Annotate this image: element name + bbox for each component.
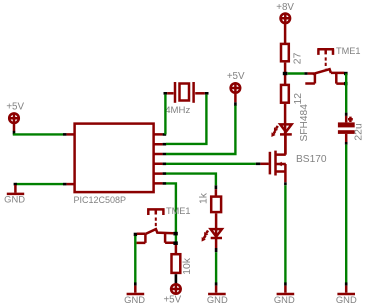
svg-text:+8V: +8V <box>276 2 294 13</box>
svg-text:GND: GND <box>274 294 295 305</box>
svg-text:22u: 22u <box>354 123 365 141</box>
svg-text:TME1: TME1 <box>336 46 361 56</box>
svg-text:BS170: BS170 <box>296 154 327 165</box>
svg-text:+5V: +5V <box>6 102 24 113</box>
svg-text:1k: 1k <box>199 192 210 204</box>
svg-text:SFH484: SFH484 <box>299 104 310 142</box>
svg-text:GND: GND <box>124 294 145 305</box>
svg-text:10k: 10k <box>182 257 193 275</box>
svg-text:12: 12 <box>293 93 304 105</box>
svg-text:GND: GND <box>336 294 357 305</box>
svg-text:4MHz: 4MHz <box>165 105 190 116</box>
svg-text:+5V: +5V <box>227 71 245 82</box>
svg-text:TME1: TME1 <box>166 206 191 216</box>
svg-text:PIC12C508P: PIC12C508P <box>74 195 127 205</box>
svg-text:GND: GND <box>207 294 228 305</box>
svg-text:GND: GND <box>4 194 25 205</box>
svg-text:+5V: +5V <box>163 294 181 305</box>
svg-text:27: 27 <box>293 52 304 64</box>
